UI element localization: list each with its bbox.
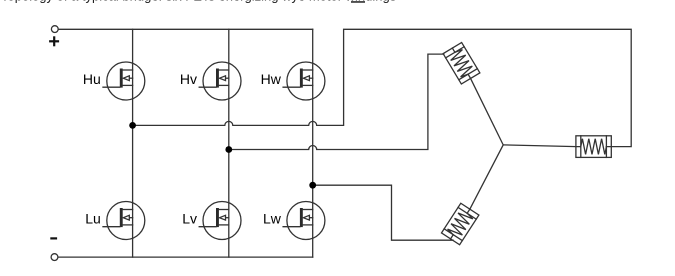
wire: bottom negative rail	[58, 256, 313, 258]
svg-text:Hv: Hv	[180, 71, 197, 87]
svg-text:Topology of a typical bridge:: Topology of a typical bridge: six FETs e…	[1, 0, 397, 3]
transistor Lu	[103, 202, 145, 240]
wire: phase U net with hops to right winding	[133, 29, 632, 146]
wire: star point to lower winding	[470, 145, 503, 209]
svg-text:Lw: Lw	[263, 211, 282, 227]
transistor Hv	[199, 62, 241, 100]
transistor Lv	[199, 202, 241, 240]
wire: top positive rail	[58, 28, 313, 30]
wire: column W vertical	[312, 29, 314, 257]
svg-text:Hu: Hu	[83, 71, 101, 87]
node W junction dot	[309, 182, 316, 189]
winding phase U (right, horizontal)	[576, 136, 611, 158]
wire: column V vertical	[228, 29, 230, 257]
terminal: positive supply	[51, 26, 58, 33]
wire: column U vertical	[132, 29, 134, 257]
svg-text:Lv: Lv	[182, 211, 197, 227]
transistor Lw	[283, 202, 325, 240]
winding phase V (upper, tilted)	[443, 43, 480, 84]
wire: phase V net with hop to upper winding	[229, 54, 444, 149]
winding phase W (lower, tilted)	[442, 203, 479, 244]
transistor Hw	[283, 62, 325, 100]
wire: star point to right winding	[503, 145, 576, 147]
terminal: negative supply	[51, 254, 58, 261]
wire: star point to upper winding	[471, 79, 504, 145]
svg-text:Lu: Lu	[85, 211, 101, 227]
wire: phase W net to lower winding	[313, 185, 453, 240]
svg-text:Hw: Hw	[261, 71, 282, 87]
transistor Hu	[103, 62, 145, 100]
plus symbol	[49, 36, 59, 46]
node U junction dot	[129, 122, 136, 129]
node V junction dot	[225, 146, 232, 153]
minus symbol	[50, 237, 57, 239]
